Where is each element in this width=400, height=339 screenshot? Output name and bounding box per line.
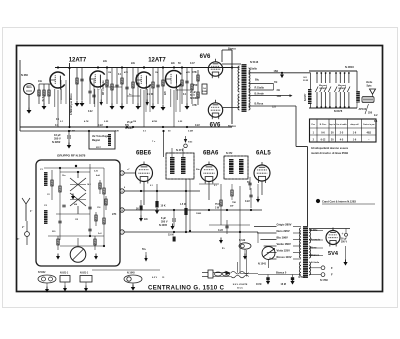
svg-text:Magnet: Magnet — [92, 139, 100, 142]
svg-text:N 472: N 472 — [226, 152, 233, 155]
svg-text:N 649: N 649 — [239, 239, 246, 242]
svg-text:0.47: 0.47 — [190, 62, 195, 65]
svg-text:3-30: 3-30 — [94, 171, 98, 173]
svg-text:7Ω: 7Ω — [274, 81, 277, 84]
svg-text:25 µF: 25 µF — [190, 92, 197, 94]
svg-text:Micro: Micro — [26, 87, 32, 89]
svg-text:Lin al cable: Lin al cable — [336, 124, 346, 126]
svg-text:R.Gialla: R.Gialla — [255, 86, 265, 89]
svg-text:6BE6: 6BE6 — [136, 150, 152, 156]
svg-text:Verde: Verde — [366, 82, 373, 84]
svg-text:1A: 1A — [203, 87, 206, 90]
svg-text:N 5042: N 5042 — [38, 271, 46, 274]
svg-text:S.S.V. VOLETE: S.S.V. VOLETE — [233, 284, 248, 286]
svg-text:N.9177: N.9177 — [305, 93, 307, 101]
svg-text:50n: 50n — [196, 169, 200, 171]
svg-text:50+: 50+ — [142, 248, 147, 251]
svg-text:N 921-1: N 921-1 — [80, 273, 89, 275]
svg-text:50 µF: 50 µF — [341, 239, 348, 241]
svg-text:Pos: Pos — [312, 124, 315, 126]
svg-text:AP100: AP100 — [359, 108, 367, 111]
svg-text:N 4005: N 4005 — [159, 224, 168, 227]
svg-text:6V6: 6V6 — [200, 54, 211, 60]
svg-text:22K: 22K — [115, 131, 119, 133]
svg-text:500K: 500K — [202, 91, 207, 93]
svg-text:Grigio 280V: Grigio 280V — [277, 223, 292, 227]
svg-text:27K: 27K — [112, 213, 117, 216]
svg-text:1°: 1° — [30, 210, 32, 213]
svg-text:115: 115 — [75, 219, 78, 221]
svg-text:F: F — [331, 266, 333, 270]
svg-text:50 V: 50 V — [190, 95, 195, 97]
svg-text:16 µF: 16 µF — [54, 133, 61, 137]
svg-text:N 1768: N 1768 — [320, 279, 328, 282]
svg-text:47K: 47K — [192, 70, 197, 74]
svg-text:Nero: Nero — [311, 246, 317, 250]
svg-text:N 360: N 360 — [21, 73, 28, 77]
svg-text:C16: C16 — [97, 207, 100, 209]
svg-text:15 M: 15 M — [168, 234, 174, 237]
svg-text:Gli altoparlanti devono essere: Gli altoparlanti devono essere — [311, 146, 349, 150]
svg-text:350 V: 350 V — [54, 137, 61, 141]
svg-text:1M: 1M — [133, 121, 136, 123]
svg-text:0.22: 0.22 — [88, 111, 93, 113]
svg-text:Nero 220V: Nero 220V — [277, 229, 290, 233]
svg-text:75K: 75K — [232, 202, 236, 204]
svg-text:muniti di trasfor. di linea 25: muniti di trasfor. di linea 250Ω — [311, 151, 348, 155]
svg-text:1M: 1M — [108, 72, 111, 74]
svg-text:16 M: 16 M — [256, 283, 261, 286]
svg-text:16 M: 16 M — [281, 283, 286, 286]
svg-text:22n: 22n — [131, 62, 136, 65]
svg-text:Blu: Blu — [255, 79, 260, 82]
svg-text:10 K: 10 K — [161, 205, 166, 208]
svg-text:0.5M: 0.5M — [70, 131, 75, 133]
svg-text:N 471: N 471 — [176, 148, 183, 152]
svg-text:6AL5: 6AL5 — [256, 150, 271, 156]
svg-text:6-12: 6-12 — [321, 139, 326, 142]
svg-text:0.22: 0.22 — [218, 229, 223, 232]
svg-text:5V4: 5V4 — [328, 251, 339, 257]
svg-text:N 1045: N 1045 — [127, 272, 135, 275]
svg-text:250: 250 — [368, 112, 373, 115]
svg-text:12AT7: 12AT7 — [148, 58, 166, 64]
svg-text:B.Rosa: B.Rosa — [255, 103, 264, 106]
svg-text:Viola 125V: Viola 125V — [277, 249, 291, 253]
svg-text:N 5116: N 5116 — [250, 60, 259, 64]
svg-text:0.22: 0.22 — [245, 200, 250, 203]
svg-text:altop coll: altop coll — [350, 123, 359, 126]
svg-text:CENTRALINO G. 1510 C: CENTRALINO G. 1510 C — [148, 286, 225, 292]
svg-text:0517: 0517 — [96, 147, 102, 149]
svg-text:Var Tono-Ruga: Var Tono-Ruga — [92, 136, 109, 138]
svg-text:40Ω: 40Ω — [366, 132, 371, 135]
svg-text:WT / Oil Tono: WT / Oil Tono — [103, 80, 105, 95]
svg-text:N 3952: N 3952 — [52, 140, 61, 144]
svg-text:0.22: 0.22 — [195, 124, 200, 127]
svg-text:4.7K: 4.7K — [41, 97, 44, 102]
svg-text:Cand Cart & Interm N.1283: Cand Cart & Interm N.1283 — [322, 200, 356, 204]
svg-text:6BA6: 6BA6 — [203, 150, 219, 156]
svg-text:6V6: 6V6 — [210, 123, 221, 129]
svg-text:B.Verde: B.Verde — [255, 93, 265, 96]
svg-text:47K: 47K — [186, 71, 190, 74]
svg-text:+: + — [342, 232, 344, 236]
svg-text:6.3 V: 6.3 V — [152, 277, 158, 279]
svg-text:3Ω: 3Ω — [277, 89, 280, 92]
svg-text:Imp in: Imp in — [329, 124, 335, 126]
svg-text:Arancio: Arancio — [311, 238, 321, 242]
svg-text:2 W: 2 W — [215, 207, 220, 210]
svg-text:2°: 2° — [22, 226, 24, 229]
svg-text:50V: 50V — [125, 125, 130, 127]
svg-text:22n: 22n — [171, 63, 176, 65]
svg-text:Blu 190V: Blu 190V — [277, 236, 289, 240]
svg-text:2.2M: 2.2M — [188, 131, 193, 133]
svg-text:GRUPPO RF N 2678: GRUPPO RF N 2678 — [57, 154, 86, 158]
svg-text:Marroni: Marroni — [338, 85, 346, 87]
svg-text:N. Pres: N. Pres — [320, 124, 327, 126]
svg-text:HO: HO — [304, 77, 308, 79]
svg-text:N 1615: N 1615 — [319, 88, 327, 90]
svg-text:N 1615: N 1615 — [338, 88, 346, 90]
svg-text:F: F — [331, 273, 333, 277]
svg-text:50 c/s: 50 c/s — [237, 288, 244, 290]
svg-text:N 921-1: N 921-1 — [60, 273, 69, 275]
svg-text:47K: 47K — [124, 71, 128, 74]
svg-text:M: M — [184, 204, 186, 206]
svg-text:Verde 160V: Verde 160V — [277, 242, 292, 246]
svg-text:N 4R16: N 4R16 — [345, 65, 354, 69]
svg-text:250: 250 — [193, 83, 198, 87]
svg-text:12AT7: 12AT7 — [69, 58, 87, 64]
svg-text:N 5043: N 5043 — [299, 276, 308, 279]
svg-text:B.Gialla: B.Gialla — [311, 262, 320, 264]
svg-text:Bianco: Bianco — [228, 125, 237, 128]
svg-text:350 V: 350 V — [341, 242, 347, 244]
svg-text:22n: 22n — [103, 60, 108, 63]
svg-text:Rosso 110V: Rosso 110V — [277, 255, 292, 259]
svg-text:10n: 10n — [38, 80, 43, 83]
svg-text:N 1041: N 1041 — [258, 263, 267, 266]
svg-text:0.22: 0.22 — [98, 124, 103, 127]
svg-text:N 8478: N 8478 — [334, 109, 343, 113]
svg-text:0.5M/1M per Micro: 0.5M/1M per Micro — [70, 93, 73, 115]
svg-text:Bianca 0: Bianca 0 — [276, 271, 287, 274]
svg-text:Bianco: Bianco — [311, 253, 320, 257]
svg-text:Gialla: Gialla — [250, 68, 257, 71]
svg-text:Spia: Spia — [367, 86, 373, 88]
svg-text:47K: 47K — [192, 103, 197, 107]
svg-text:4.7K: 4.7K — [84, 120, 89, 123]
svg-text:14.3: 14.3 — [87, 183, 91, 186]
svg-text:22n: 22n — [144, 219, 149, 221]
svg-text:Carico in par: Carico in par — [363, 124, 375, 126]
svg-text:100K: 100K — [196, 213, 202, 215]
svg-text:1M: 1M — [155, 72, 158, 74]
svg-text:N 4063: N 4063 — [125, 127, 133, 130]
svg-text:470K: 470K — [152, 120, 158, 123]
svg-text:Marroni: Marroni — [319, 85, 327, 87]
svg-text:3°: 3° — [17, 238, 19, 241]
